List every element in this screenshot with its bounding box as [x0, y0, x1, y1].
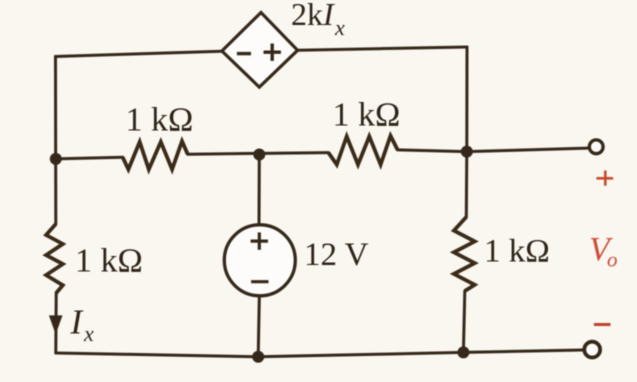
resistor R2 1k ohm (top-right horizontal): [328, 136, 397, 165]
resistor R1 1k ohm (top-left horizontal): [123, 141, 188, 169]
wire right vertical lower: [463, 291, 464, 352]
U1 plus sign: [264, 44, 281, 61]
svg-text:x: x: [334, 15, 345, 40]
svg-text:1 kΩ: 1 kΩ: [484, 234, 550, 270]
svg-text:2kI: 2kI: [291, 0, 335, 32]
current arrow Ix: [49, 315, 63, 334]
svg-text:12 V: 12 V: [304, 237, 369, 273]
wire left vertical upper: [54, 57, 57, 225]
resistor R3 1k ohm (left vertical): [46, 224, 63, 293]
wire source stem upper: [258, 155, 261, 224]
svg-text:1 kΩ: 1 kΩ: [75, 243, 143, 280]
wire bottom: [56, 350, 583, 357]
svg-text:I: I: [70, 303, 85, 342]
voltage source V1 circle: [224, 225, 295, 296]
wire node C to terminal: [467, 148, 588, 152]
junction node A (left-middle): [50, 153, 62, 165]
resistor R4 1k ohm (right vertical): [454, 217, 475, 291]
wire right vertical upper: [465, 47, 469, 217]
junction node D (bottom-middle): [252, 351, 264, 363]
terminal T1 (top-right open circle): [589, 140, 603, 154]
wire left vertical lower: [54, 293, 57, 353]
wire middle node A to R1: [56, 157, 123, 159]
svg-text:x: x: [83, 321, 94, 346]
wire R1 to node B: [188, 153, 329, 155]
svg-text:1 kΩ: 1 kΩ: [126, 102, 194, 139]
wire top-right horizontal: [298, 47, 467, 50]
output minus sign (red): [594, 323, 611, 326]
wire top-left horizontal: [56, 51, 222, 56]
output plus sign (red): [596, 171, 613, 186]
wire R2 to node C: [398, 150, 467, 152]
junction node C (right-middle): [461, 146, 473, 158]
wire source stem lower: [258, 297, 259, 357]
svg-text:o: o: [607, 248, 618, 272]
V1 minus sign: [251, 280, 268, 283]
U1 minus sign: [237, 52, 251, 55]
svg-text:1 kΩ: 1 kΩ: [333, 97, 401, 134]
V1 plus sign: [251, 232, 268, 249]
terminal T2 (bottom-right open circle): [584, 342, 600, 358]
junction node B (middle): [253, 149, 265, 161]
junction node E (bottom-right): [457, 346, 469, 358]
dependent source U1 diamond 2kIx: [222, 13, 298, 88]
